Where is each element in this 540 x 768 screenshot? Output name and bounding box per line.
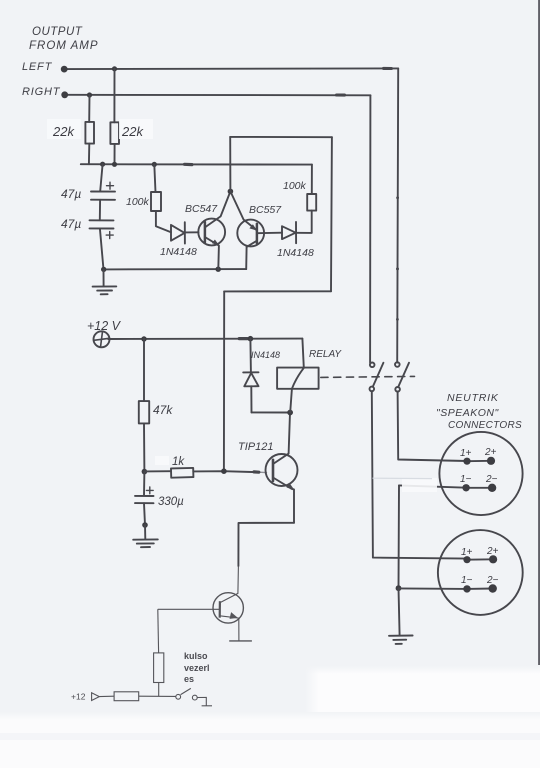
node bottom bus left bbox=[101, 267, 106, 272]
wire left 22k to bus bbox=[88, 144, 90, 165]
Q1 emitter arrow bbox=[212, 240, 220, 247]
node TIP base junction bbox=[221, 468, 227, 474]
wire bus to 100k R3 bbox=[154, 164, 155, 192]
wire loop bottom across bbox=[224, 290, 331, 292]
svg-text:1k: 1k bbox=[172, 456, 185, 468]
arrow on LEFT wire bbox=[384, 67, 392, 70]
wire D3 to relay bottom node bbox=[252, 411, 291, 413]
relay contact S1 bbox=[370, 363, 375, 368]
faint base wire continuation bbox=[259, 471, 267, 473]
wire loop down right bbox=[330, 137, 333, 291]
ground G1 bbox=[93, 285, 117, 287]
wire Q3 emitter down-left-down bbox=[238, 523, 294, 566]
arrow on rail bbox=[239, 337, 247, 340]
ground G2 bbox=[133, 538, 158, 540]
wire C2 to bottom bus bbox=[100, 229, 104, 270]
wire rail to 47k bbox=[143, 339, 145, 401]
Q4 emitter arrow bbox=[230, 612, 238, 619]
svg-text:1N4148: 1N4148 bbox=[160, 246, 197, 258]
node rail diode junction bbox=[248, 336, 254, 342]
svg-text:1+: 1+ bbox=[460, 448, 472, 459]
transistor Q3 TIP121 bbox=[266, 454, 298, 486]
wire junction to 1k bbox=[144, 470, 171, 472]
Q3 emitter arrow bbox=[287, 483, 295, 490]
J1 1- to 2- wire bbox=[466, 487, 492, 489]
node RIGHT terminal bbox=[61, 91, 68, 98]
wire minus down to ground bbox=[399, 588, 400, 635]
wire right 22k to LEFT bbox=[113, 69, 115, 123]
erased line remnant bbox=[373, 477, 433, 479]
wire triangle to R8 bbox=[99, 695, 114, 697]
svg-text:es: es bbox=[184, 674, 194, 684]
Q2 collector bbox=[246, 241, 257, 269]
wire top loop across bbox=[230, 136, 332, 138]
wire S2 down to speakon1 bbox=[398, 392, 467, 461]
svg-text:NEUTRIK: NEUTRIK bbox=[447, 392, 499, 404]
wire S1 down to speakon2 bbox=[372, 391, 467, 558]
J1 terminal dots bbox=[463, 458, 470, 465]
wire minus bus speakon1 bbox=[399, 485, 466, 487]
svg-text:BC547: BC547 bbox=[185, 203, 218, 215]
wire R8 to switch bbox=[139, 695, 176, 697]
node bus 22k junction bbox=[112, 162, 117, 167]
wire R4 to bus corner bbox=[311, 165, 313, 194]
node junction on RIGHT wire bbox=[87, 92, 92, 97]
svg-text:47µ: 47µ bbox=[61, 217, 81, 231]
wire to ground bbox=[103, 269, 105, 285]
wire minus bus down bbox=[398, 485, 401, 588]
svg-text:RIGHT: RIGHT bbox=[22, 86, 61, 98]
ground G3 bbox=[389, 635, 413, 637]
wire LEFT down right side bbox=[397, 68, 398, 362]
plus C3 bbox=[146, 487, 153, 494]
resistor R7 body bbox=[154, 653, 164, 683]
Q4 emitter ground bar bbox=[229, 640, 252, 642]
transistor Q1 BC547 bbox=[198, 219, 225, 246]
svg-text:1−: 1− bbox=[461, 575, 473, 586]
diode D3 flyback 1N4148 bbox=[249, 339, 252, 372]
diode D2 1N4148 bbox=[282, 226, 296, 239]
node flipflop top junction bbox=[228, 189, 234, 195]
resistor R2 22k body bbox=[110, 122, 119, 144]
J2 terminal dots bbox=[463, 556, 470, 563]
switch termination bbox=[197, 697, 206, 705]
svg-text:OUTPUT: OUTPUT bbox=[32, 26, 83, 38]
Q4 collector bbox=[220, 566, 239, 603]
wire loop down to TIP base bbox=[223, 291, 225, 471]
Q3 collector bbox=[273, 413, 290, 464]
dashed actuator line bbox=[321, 376, 415, 377]
wire LEFT output bbox=[66, 67, 398, 70]
whiteout patches bbox=[47, 119, 437, 492]
wire bus to C1 bbox=[100, 164, 102, 191]
digital drawn section bbox=[92, 566, 252, 706]
svg-text:FROM AMP: FROM AMP bbox=[29, 40, 99, 52]
svg-text:2−: 2− bbox=[485, 474, 498, 485]
input triangle +12 bbox=[92, 693, 100, 701]
node junction on LEFT wire bbox=[112, 66, 117, 71]
wire RIGHT down right side bbox=[369, 95, 371, 362]
wire 330u to ground bbox=[144, 503, 145, 525]
node below 330u bbox=[142, 522, 148, 528]
speakon connector J1 bbox=[439, 432, 522, 515]
plus C2 bbox=[106, 232, 113, 239]
wire RIGHT output bbox=[67, 94, 370, 97]
Q4 emitter bbox=[220, 616, 239, 641]
svg-text:kulso: kulso bbox=[184, 651, 208, 661]
wire junction up bbox=[229, 137, 231, 192]
relay contact S2 bbox=[395, 362, 400, 367]
wire minus to speakon2 1- bbox=[399, 587, 468, 590]
svg-text:BC557: BC557 bbox=[249, 204, 282, 216]
resistor R1 22k body bbox=[85, 122, 94, 144]
wire D2 to 100k R4 bbox=[296, 211, 312, 233]
wire right 22k to bus bbox=[114, 144, 116, 164]
resistor R3 100k body bbox=[151, 192, 161, 211]
white scan area bottom right bbox=[305, 666, 540, 768]
svg-text:LEFT: LEFT bbox=[22, 61, 53, 73]
node 1k junction bbox=[142, 469, 148, 475]
pen blob on TIP base wire bbox=[254, 470, 259, 474]
power +12V symbol bbox=[94, 331, 110, 347]
svg-text:100k: 100k bbox=[283, 180, 307, 192]
relay K1 coil bbox=[302, 339, 303, 368]
wire junction to BC557 emitter bbox=[230, 191, 256, 229]
pen marks on vertical bbox=[396, 196, 399, 199]
Q3 emitter bbox=[273, 478, 294, 523]
capacitor C2 47u bbox=[90, 219, 114, 221]
Q2 base wire to D2 bbox=[257, 232, 282, 235]
svg-text:IN4148: IN4148 bbox=[251, 350, 280, 360]
soft transition edges bbox=[305, 666, 319, 712]
svg-text:+12: +12 bbox=[71, 692, 86, 702]
svg-text:TIP121: TIP121 bbox=[238, 441, 273, 453]
svg-text:"SPEAKON": "SPEAKON" bbox=[436, 407, 499, 419]
scan edge line right bbox=[538, 0, 540, 665]
svg-text:vezerl: vezerl bbox=[184, 663, 210, 673]
arrow on RIGHT wire bbox=[337, 93, 345, 96]
Q1 collector bbox=[205, 192, 230, 228]
J1 1+ to 2+ wire bbox=[467, 460, 491, 462]
svg-text:1−: 1− bbox=[460, 474, 472, 485]
svg-text:1+: 1+ bbox=[461, 547, 473, 558]
speakon connector J2 bbox=[438, 530, 523, 615]
diode D1 1N4148 bbox=[171, 225, 185, 241]
resistor R6 1k body bbox=[171, 468, 193, 478]
J2 1- to 2- wire bbox=[467, 588, 493, 590]
wire base corner down bbox=[157, 609, 160, 653]
svg-text:330µ: 330µ bbox=[158, 496, 184, 508]
svg-text:2+: 2+ bbox=[486, 546, 499, 557]
svg-text:47k: 47k bbox=[153, 403, 173, 417]
node minus junction bbox=[396, 585, 402, 591]
switch S3 bbox=[176, 694, 181, 699]
wire +12 rail bbox=[108, 338, 302, 340]
node BC547 emitter junction bbox=[216, 267, 221, 272]
resistor R4 100k body bbox=[307, 194, 316, 211]
svg-text:47µ: 47µ bbox=[61, 187, 81, 201]
resistor R8 body bbox=[114, 692, 139, 701]
white scan strip bottom bbox=[0, 712, 540, 768]
transistor Q2 BC557 bbox=[237, 220, 264, 247]
wire bottom bus bbox=[104, 268, 247, 270]
plus C1 bbox=[107, 182, 114, 189]
arrow on sense bus bbox=[185, 163, 193, 167]
svg-text:22k: 22k bbox=[52, 124, 75, 139]
node bus cap junction bbox=[100, 162, 105, 167]
svg-text:1N4148: 1N4148 bbox=[277, 247, 314, 259]
Q1 emitter bbox=[205, 237, 219, 269]
svg-text:2+: 2+ bbox=[484, 447, 497, 458]
svg-text:2−: 2− bbox=[486, 575, 499, 586]
wire 100k to D1 bbox=[156, 211, 171, 232]
BC557 emitter arrow bbox=[249, 224, 257, 230]
wire sense bus bbox=[81, 163, 312, 165]
svg-text:RELAY: RELAY bbox=[309, 349, 342, 360]
wire 1k to TIP base bbox=[193, 471, 258, 472]
wire 47k to 1k junction bbox=[143, 423, 145, 471]
node LEFT terminal bbox=[61, 66, 68, 73]
node relay bottom junction bbox=[287, 410, 293, 416]
wire C1 to C2 bbox=[99, 200, 101, 220]
svg-text:CONNECTORS: CONNECTORS bbox=[448, 420, 522, 431]
transistor Q4 bbox=[213, 593, 243, 623]
capacitor C1 47u bbox=[91, 191, 115, 193]
wire R7 to bottom wire bbox=[158, 683, 160, 697]
node bus 100k junction bbox=[152, 162, 157, 167]
faint scan band bbox=[0, 733, 540, 740]
node rail 47k junction bbox=[141, 336, 146, 341]
capacitor C3 330u bbox=[135, 495, 154, 497]
svg-text:22k: 22k bbox=[121, 124, 144, 139]
svg-text:+12 V: +12 V bbox=[87, 319, 122, 333]
wire left 22k to RIGHT bbox=[88, 95, 90, 122]
wire D1 to Q1 base bbox=[185, 231, 199, 233]
Q4 base wire bbox=[158, 608, 220, 610]
resistor R5 47k body bbox=[139, 401, 149, 423]
svg-text:100k: 100k bbox=[126, 196, 150, 208]
wire junction to 330u bbox=[143, 472, 145, 496]
J2 1+ to 2+ wire bbox=[467, 558, 493, 560]
